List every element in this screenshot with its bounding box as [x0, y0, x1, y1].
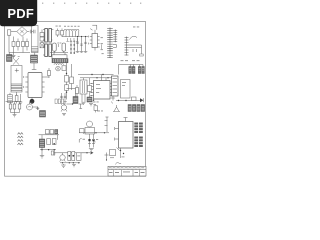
wire hook CN903 — [113, 45, 116, 48]
thermistor hatched — [73, 89, 78, 104]
bus wire power — [39, 135, 60, 140]
bus wire relay — [79, 132, 109, 133]
junction dots secondary — [70, 40, 75, 54]
top row parts power — [46, 130, 58, 134]
connector CN902 pin header — [107, 28, 113, 59]
diode D905 — [56, 29, 59, 38]
PDF badge — [0, 0, 37, 26]
net label dashes CN904 — [133, 26, 139, 29]
diode D903 — [22, 37, 25, 53]
snubber cluster — [87, 97, 94, 102]
wire header bus — [119, 65, 144, 75]
choke box L902 — [52, 55, 67, 59]
diode D904 — [26, 39, 29, 51]
bus wire upper — [78, 74, 114, 76]
inductor L903 hatched — [52, 59, 68, 63]
lamp LP901 — [27, 102, 39, 110]
resistor R901 — [40, 43, 44, 48]
ground T903 — [82, 102, 86, 104]
capacitor C931 — [92, 134, 95, 148]
connector CN906 hatched — [31, 55, 38, 63]
connector CN901 — [7, 53, 13, 62]
line filter choke LF901 — [32, 26, 39, 56]
diode D910 — [45, 68, 51, 78]
capacitor C935 — [68, 152, 71, 161]
regulator U908 — [39, 135, 44, 156]
label dashes audio — [92, 139, 98, 142]
diode D906 — [61, 29, 64, 38]
wire arrow audio — [81, 151, 94, 154]
ground RC network — [13, 113, 17, 117]
ground C915 C916 — [60, 102, 67, 104]
svg-text:PDF: PDF — [7, 6, 34, 21]
wire AC line input — [9, 32, 30, 53]
relay K901 — [85, 121, 95, 134]
RC branch network — [9, 102, 21, 113]
title block — [108, 166, 146, 176]
stub cluster mid-bottom — [105, 153, 109, 161]
diode D902 — [17, 39, 20, 51]
transistor Q911 — [60, 153, 66, 162]
transistor Q910 — [61, 103, 67, 112]
ground U903 — [89, 104, 93, 106]
zone reference marks — [42, 3, 141, 5]
wire left edge — [6, 101, 11, 103]
resistor R930 — [77, 153, 82, 161]
capacitor C930 — [88, 134, 91, 148]
varistor RV901 — [7, 30, 10, 35]
capacitor C915 — [60, 93, 63, 102]
wire T901 leads — [43, 30, 53, 56]
squiggle above title block — [116, 162, 122, 164]
wire CN904 to right — [129, 45, 144, 56]
header CN905 lower — [134, 137, 143, 148]
drawing frame — [5, 22, 146, 177]
IC U902 — [24, 73, 45, 98]
inductor L901 — [64, 29, 79, 30]
resistor R903 — [15, 94, 18, 104]
component on wire — [132, 97, 137, 101]
part mid — [94, 106, 98, 113]
net label dashes top — [56, 26, 80, 27]
transformer T901 secondary winding — [45, 44, 52, 57]
header J2 — [138, 67, 144, 74]
resistor R920 — [76, 85, 79, 97]
connector trio J3 — [128, 105, 145, 112]
connector CN904 pin header — [125, 37, 129, 56]
resistor R906 chain — [70, 64, 74, 90]
label dashes Q912 — [97, 110, 103, 113]
resistor network hatched — [36, 107, 46, 118]
small box D911 — [62, 66, 66, 71]
component blob — [30, 98, 35, 104]
junction dots bus — [91, 74, 108, 79]
ground bridge — [12, 53, 16, 58]
IC U906 — [119, 118, 134, 149]
filter capacitor bank — [76, 36, 88, 53]
capacitor row marks — [55, 99, 64, 104]
net label dashes right-top — [121, 59, 140, 62]
resistor R905 chain — [65, 62, 69, 100]
ground Q910 — [62, 113, 66, 115]
resistor R926 — [52, 139, 56, 145]
net flag mark — [79, 138, 85, 142]
IC U901 — [89, 30, 100, 51]
secondary comb wires — [62, 31, 88, 42]
wire feedback — [67, 88, 79, 90]
ground R926 — [52, 150, 56, 156]
title block text dashes — [109, 167, 145, 173]
wire arrow Q910 — [67, 103, 74, 104]
IC U904 striped — [112, 76, 119, 96]
header CN905 upper — [134, 123, 143, 134]
wire loop arc — [130, 36, 138, 39]
winding arcs below L903 — [54, 64, 64, 65]
bottom wire right — [116, 100, 142, 101]
optocoupler U907 — [56, 66, 61, 71]
transformer T903 — [80, 78, 87, 102]
junction row power — [40, 149, 56, 150]
label dashes mid — [93, 102, 99, 105]
net label list — [18, 133, 24, 145]
diode D901 — [12, 37, 15, 53]
resistor marks right of U901 — [101, 37, 104, 54]
wire choke to IC — [32, 63, 37, 70]
capacitor C901 — [27, 30, 33, 34]
tee stub mid — [79, 104, 84, 109]
connector CN903 pin header — [113, 30, 117, 43]
bus wire audio — [51, 150, 88, 155]
junction row audio — [60, 162, 80, 163]
transformer T902 — [11, 66, 22, 95]
capacitor C908 — [62, 43, 66, 51]
wire startup hook — [90, 25, 97, 30]
capacitor C903 — [40, 30, 44, 44]
box on relay wire — [80, 129, 85, 133]
capacitor C902 — [34, 30, 35, 34]
ground U908 — [40, 156, 44, 158]
diode D915 — [140, 98, 144, 102]
transistor stubs Q913 — [111, 96, 115, 104]
bus wire lower — [80, 77, 114, 79]
resistor marks between caps — [57, 43, 61, 47]
transistor Q912 — [113, 105, 120, 112]
ground relay — [89, 149, 94, 151]
bottom cluster right — [110, 148, 125, 159]
capacitor C907 — [53, 43, 57, 51]
ground C936 — [72, 165, 76, 167]
wire U903 top — [102, 75, 107, 81]
resistor R921 — [88, 78, 92, 99]
wire secondary lower — [50, 51, 68, 55]
stub column relay — [105, 117, 109, 132]
transformer T901 primary winding — [45, 29, 52, 43]
bridge rectifier BD901 — [17, 27, 28, 37]
header J1 — [129, 67, 135, 74]
capacitor C910 — [8, 93, 13, 103]
IC U903 — [91, 81, 113, 100]
ground Q911 — [61, 164, 65, 167]
box U905 — [121, 80, 131, 99]
ground T902 — [19, 94, 23, 104]
capacitor C936 — [72, 152, 75, 161]
stub marks U906 left — [114, 127, 118, 141]
fuse F901 — [13, 57, 20, 65]
resistor R925 — [47, 139, 51, 145]
capacitor C916 — [64, 93, 67, 102]
